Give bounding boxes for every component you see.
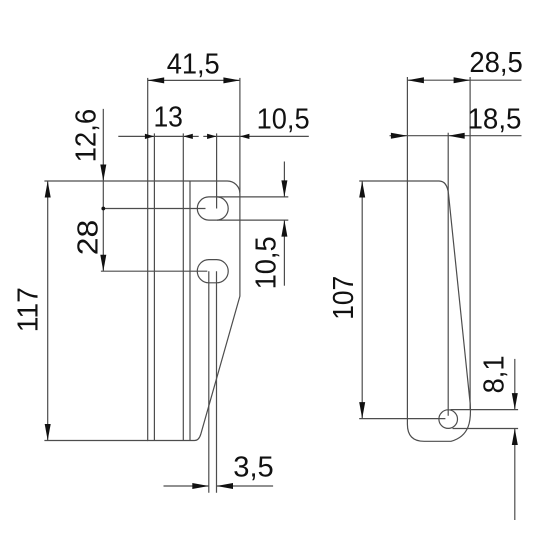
arrow 12,6 pointing down at top edge — [100, 165, 106, 182]
arrow 10,5 slot height top (outside, pointing down) — [281, 180, 287, 197]
arrow 10,5 slot height bottom (outside, pointing up) — [281, 220, 287, 237]
arrow 10,5 top right (outside, pointing left) — [240, 134, 250, 139]
dim 107 hole centre leader y=417.9 — [359, 418, 445, 420]
dim 10,5 extension line x=216.6 (slot centre line up) — [216, 133, 218, 208]
dim 28,5 extension line right x=470 — [469, 77, 471, 409]
dim 117 dimension line — [47, 181, 49, 441]
dim 8,1 bottom extension line — [453, 428, 519, 430]
dim 3,5 right tail under text — [217, 485, 274, 487]
dim 10,5 slot height: bottom extension line — [217, 219, 288, 221]
svg-text:10,5: 10,5 — [257, 103, 310, 135]
dim 12,6 / 28 dimension line — [102, 109, 104, 271]
arrow 8,1 bottom (outside, pointing up) — [512, 429, 518, 446]
dim 3,5 extension line x=208.8 — [208, 271, 210, 493]
svg-text:10,5: 10,5 — [251, 236, 283, 289]
dim 8,1 top extension line — [451, 409, 519, 411]
front view inner vertical line x=190.0 — [189, 181, 191, 441]
dim 10,5 slot height: lower tail beside text — [283, 220, 285, 286]
centre dot 12,6/28 — [101, 207, 105, 211]
dim 3,5 extension line x=216.5 — [216, 271, 218, 493]
dim 28,5 extension line left (side view left edge extended up) — [406, 77, 408, 181]
dim 117 bottom extension line — [44, 440, 147, 442]
arrow 8,1 top (outside, pointing down) — [512, 393, 518, 410]
svg-text:3,5: 3,5 — [233, 452, 274, 484]
upper slot centre leader y=208.5 — [103, 208, 205, 210]
arrow 3,5 right (outside, pointing left) — [217, 483, 234, 489]
arrow 117 top pointing up — [45, 181, 51, 198]
arrow 10,5 top left (outside, pointing right) — [207, 134, 217, 139]
svg-text:28,5: 28,5 — [469, 47, 523, 79]
arrow 3,5 left (outside, pointing right) — [192, 483, 209, 489]
dim 107 top extension line — [359, 180, 407, 182]
lower slot centre leader y=271.2 — [101, 270, 207, 272]
svg-text:13: 13 — [153, 102, 183, 134]
svg-text:12,6: 12,6 — [71, 109, 103, 163]
front view inner vertical line x=154.4 — [153, 181, 155, 441]
dim 28,5 dimension line with right tail under text — [407, 79, 470, 81]
svg-text:117: 117 — [13, 287, 45, 332]
dim 18,5 dimension line with right tail under text — [407, 135, 521, 137]
dim 8,1 lower tail — [514, 429, 516, 521]
front view inner vertical line x=183.3 — [182, 181, 184, 441]
dim 10,5 top: left outside tail — [203, 135, 216, 137]
dim 13 extension line x=183.3 — [182, 133, 184, 181]
arrow 28 pointing down at lower slot centre — [100, 255, 106, 272]
svg-text:41,5: 41,5 — [167, 48, 220, 80]
arrow 18,5 right (outside, pointing left) — [448, 133, 465, 139]
dim 13 right outside tail — [183, 135, 198, 137]
dim 117 top extension line — [44, 180, 147, 182]
dim 107 dimension line — [361, 181, 363, 419]
svg-text:18,5: 18,5 — [468, 103, 522, 135]
front view outline — [148, 181, 240, 441]
arrow 18,5 left (outside, pointing right) — [391, 133, 408, 139]
arrow 107 top pointing up — [359, 181, 365, 198]
arrow 41,5 left — [148, 77, 165, 83]
svg-text:8,1: 8,1 — [479, 355, 511, 393]
side view outline — [407, 181, 470, 441]
dim 41,5 dimension line — [148, 79, 240, 81]
arrow 13 left (outside, pointing right) — [145, 134, 155, 139]
dim 10,5 top dimension line with right tail under text — [217, 135, 309, 137]
dim 18,5 extension line x=448.3 (hole centre line up) — [447, 133, 449, 416]
front view upper slot hole — [197, 197, 228, 220]
side view hole — [439, 410, 458, 429]
dim 10,5 slot height: top extension line — [217, 196, 288, 198]
arrow 41,5 right — [223, 77, 240, 83]
dim 41,5 extension line right (plate right edge extended up) — [239, 78, 241, 193]
dim 3,5 left tail — [164, 485, 209, 487]
svg-text:107: 107 — [328, 276, 360, 320]
arrow 107 bottom pointing down — [359, 402, 365, 419]
dim 8,1 upper tail — [514, 359, 516, 410]
arrow 28,5 left — [407, 77, 424, 83]
dim 13 dimension line with left tail — [118, 135, 183, 137]
dim 41,5 extension line left (plate left edge extended up) — [147, 78, 149, 181]
arrow 28,5 right — [454, 77, 471, 83]
svg-text:28: 28 — [72, 220, 104, 256]
dim 13 extension line x=154.4 — [153, 133, 155, 181]
arrow 13 right (outside, pointing left) — [183, 134, 193, 139]
dim 18,5 left outside tail — [390, 135, 408, 137]
arrow 117 bottom pointing down — [45, 424, 51, 441]
dim 10,5 slot height: upper tail — [283, 162, 285, 197]
front view lower slot hole — [197, 260, 228, 283]
